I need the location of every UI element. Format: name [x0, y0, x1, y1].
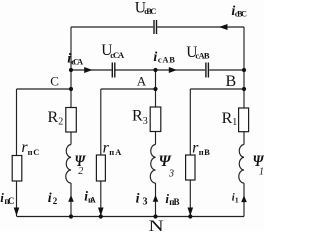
svg-text:пВ: пВ — [169, 197, 179, 207]
svg-text:R: R — [222, 110, 233, 127]
svg-text:2: 2 — [53, 196, 58, 206]
svg-text:i: i — [48, 191, 52, 206]
svg-text:пА: пА — [109, 147, 122, 157]
svg-text:cCA: cCA — [110, 50, 125, 60]
svg-text:1: 1 — [259, 167, 264, 178]
svg-text:R: R — [48, 109, 59, 126]
svg-text:cBC: cBC — [144, 6, 156, 16]
svg-text:A: A — [137, 73, 147, 88]
svg-text:i: i — [153, 50, 157, 65]
svg-text:пА: пА — [88, 195, 97, 205]
svg-text:C: C — [50, 73, 59, 88]
svg-text:3: 3 — [143, 197, 148, 208]
svg-text:1: 1 — [235, 195, 239, 204]
svg-text:cBC: cBC — [235, 10, 247, 19]
svg-text:i: i — [136, 192, 140, 207]
svg-text:Ψ: Ψ — [159, 153, 173, 170]
svg-text:N: N — [149, 218, 165, 231]
svg-text:cAB: cAB — [195, 50, 210, 60]
svg-text:cCA: cCA — [71, 56, 84, 66]
svg-text:2: 2 — [58, 116, 63, 127]
svg-text:2: 2 — [78, 166, 83, 177]
svg-text:3: 3 — [168, 168, 174, 179]
svg-text:пС: пС — [4, 196, 14, 206]
svg-text:B: B — [226, 73, 237, 90]
svg-text:cAB: cAB — [158, 55, 175, 65]
svg-text:пВ: пВ — [199, 147, 210, 157]
svg-text:3: 3 — [143, 116, 148, 127]
svg-text:1: 1 — [232, 117, 237, 128]
svg-text:R: R — [132, 108, 143, 125]
svg-text:пС: пС — [28, 147, 40, 157]
